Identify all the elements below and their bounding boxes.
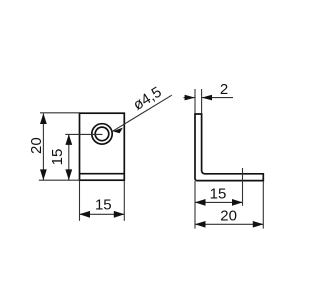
svg-text:15: 15: [210, 186, 227, 203]
svg-text:20: 20: [220, 208, 237, 225]
svg-text:15: 15: [95, 197, 112, 214]
svg-text:15: 15: [49, 149, 66, 166]
svg-text:2: 2: [220, 81, 228, 98]
svg-text:20: 20: [28, 137, 45, 154]
